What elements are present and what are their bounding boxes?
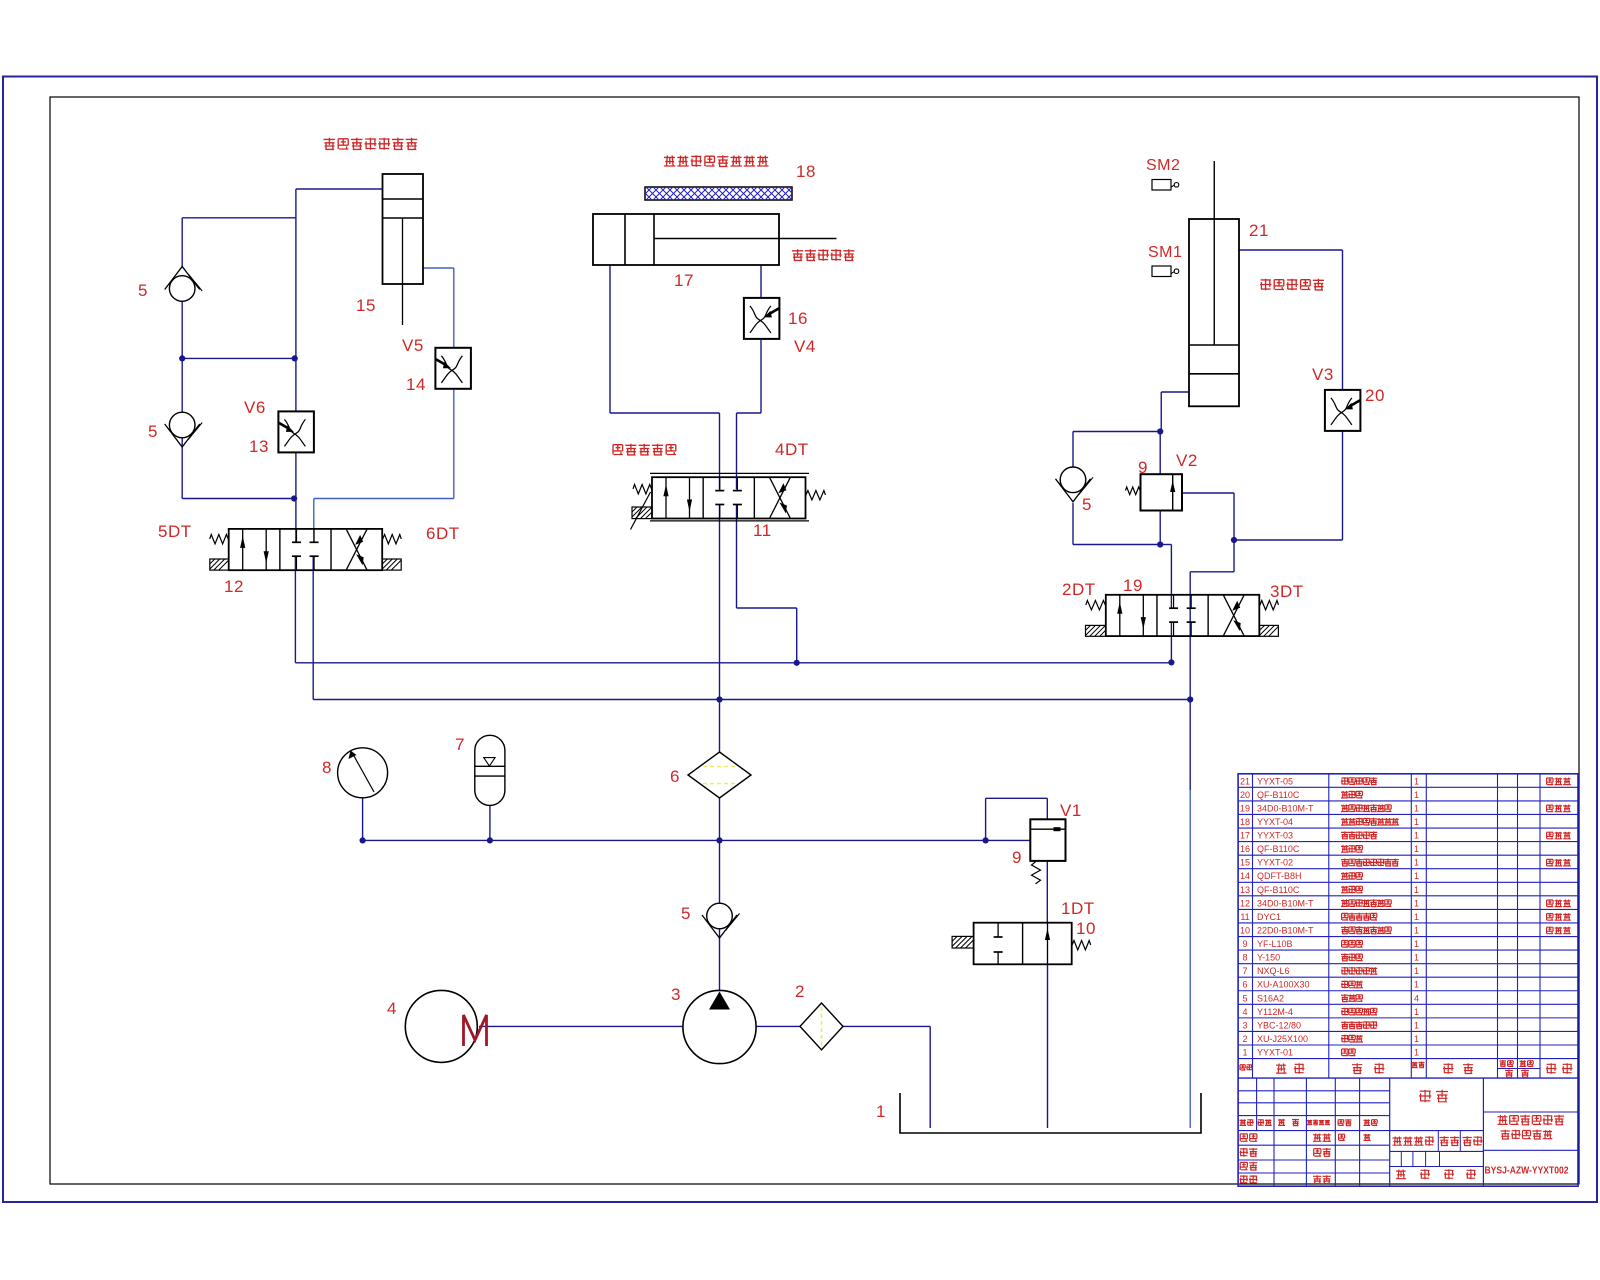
svg-text:18: 18 bbox=[1240, 817, 1250, 827]
svg-text:20: 20 bbox=[1365, 386, 1385, 405]
svg-text:5: 5 bbox=[1082, 495, 1092, 514]
svg-text:8: 8 bbox=[322, 758, 332, 777]
svg-text:V3: V3 bbox=[1312, 365, 1334, 384]
svg-text:19: 19 bbox=[1240, 803, 1250, 813]
svg-text:YBC-12/80: YBC-12/80 bbox=[1257, 1020, 1301, 1030]
svg-text:14: 14 bbox=[1240, 871, 1250, 881]
svg-text:1: 1 bbox=[1414, 912, 1419, 922]
svg-text:10: 10 bbox=[1076, 919, 1096, 938]
svg-text:15: 15 bbox=[356, 296, 376, 315]
svg-text:XU-A100X30: XU-A100X30 bbox=[1257, 980, 1310, 990]
svg-text:1: 1 bbox=[1414, 858, 1419, 868]
svg-text:6: 6 bbox=[1242, 980, 1247, 990]
svg-text:5: 5 bbox=[681, 904, 691, 923]
svg-text:1: 1 bbox=[1414, 1048, 1419, 1058]
svg-text:1: 1 bbox=[1414, 803, 1419, 813]
svg-text:5: 5 bbox=[148, 422, 158, 441]
svg-text:1: 1 bbox=[1242, 1048, 1247, 1058]
svg-text:QF-B110C: QF-B110C bbox=[1257, 885, 1300, 895]
svg-text:1: 1 bbox=[1414, 817, 1419, 827]
svg-text:1DT: 1DT bbox=[1061, 899, 1095, 918]
svg-text:4: 4 bbox=[387, 999, 397, 1018]
svg-text:4: 4 bbox=[1242, 1007, 1247, 1017]
svg-text:YYXT-02: YYXT-02 bbox=[1257, 858, 1293, 868]
svg-text:17: 17 bbox=[1240, 831, 1250, 841]
svg-text:17: 17 bbox=[674, 271, 694, 290]
svg-text:S16A2: S16A2 bbox=[1257, 993, 1284, 1003]
svg-text:YYXT-03: YYXT-03 bbox=[1257, 831, 1293, 841]
svg-text:9: 9 bbox=[1138, 458, 1148, 477]
svg-text:8: 8 bbox=[1242, 953, 1247, 963]
svg-text:3: 3 bbox=[671, 985, 681, 1004]
svg-text:QF-B110C: QF-B110C bbox=[1257, 790, 1300, 800]
svg-text:1: 1 bbox=[1414, 953, 1419, 963]
svg-text:1: 1 bbox=[1414, 1007, 1419, 1017]
svg-text:YYXT-05: YYXT-05 bbox=[1257, 776, 1293, 786]
svg-text:V4: V4 bbox=[794, 337, 816, 356]
svg-text:V6: V6 bbox=[244, 398, 266, 417]
svg-text:11: 11 bbox=[1240, 912, 1249, 922]
svg-text:QF-B110C: QF-B110C bbox=[1257, 844, 1300, 854]
svg-text:1: 1 bbox=[1414, 980, 1419, 990]
svg-text:15: 15 bbox=[1240, 858, 1250, 868]
svg-text:DYC1: DYC1 bbox=[1257, 912, 1281, 922]
svg-text:7: 7 bbox=[455, 735, 465, 754]
svg-text:V5: V5 bbox=[402, 336, 424, 355]
svg-text:QDFT-B8H: QDFT-B8H bbox=[1257, 871, 1302, 881]
svg-text:6: 6 bbox=[670, 767, 680, 786]
svg-text:7: 7 bbox=[1242, 966, 1247, 976]
svg-text:12: 12 bbox=[224, 577, 244, 596]
svg-text:Y-150: Y-150 bbox=[1257, 953, 1280, 963]
svg-text:14: 14 bbox=[406, 375, 426, 394]
svg-text:16: 16 bbox=[1240, 844, 1250, 854]
svg-text:34D0-B10M-T: 34D0-B10M-T bbox=[1257, 898, 1314, 908]
svg-text:22D0-B10M-T: 22D0-B10M-T bbox=[1257, 925, 1314, 935]
svg-text:5: 5 bbox=[138, 281, 148, 300]
svg-text:2: 2 bbox=[795, 982, 805, 1001]
svg-text:3DT: 3DT bbox=[1270, 582, 1304, 601]
svg-text:YYXT-04: YYXT-04 bbox=[1257, 817, 1293, 827]
svg-text:1: 1 bbox=[1414, 898, 1419, 908]
svg-text:10: 10 bbox=[1240, 925, 1250, 935]
svg-text:6DT: 6DT bbox=[426, 524, 460, 543]
svg-text:1: 1 bbox=[1414, 831, 1419, 841]
svg-text:2: 2 bbox=[1242, 1034, 1247, 1044]
svg-text:3: 3 bbox=[1242, 1020, 1247, 1030]
svg-text:1: 1 bbox=[876, 1102, 886, 1121]
svg-text:1: 1 bbox=[1414, 939, 1419, 949]
svg-text:13: 13 bbox=[249, 437, 269, 456]
svg-text:11: 11 bbox=[753, 521, 772, 540]
svg-text:9: 9 bbox=[1012, 848, 1022, 867]
svg-text:XU-J25X100: XU-J25X100 bbox=[1257, 1034, 1308, 1044]
svg-text:18: 18 bbox=[796, 162, 816, 181]
svg-text:1: 1 bbox=[1414, 790, 1419, 800]
svg-text:1: 1 bbox=[1414, 1020, 1419, 1030]
svg-text:1: 1 bbox=[1414, 1034, 1419, 1044]
svg-text:1: 1 bbox=[1414, 925, 1419, 935]
svg-text:5: 5 bbox=[1242, 993, 1247, 1003]
svg-text:20: 20 bbox=[1240, 790, 1250, 800]
svg-text:4: 4 bbox=[1414, 993, 1419, 1003]
svg-text:BYSJ-AZW-YYXT002: BYSJ-AZW-YYXT002 bbox=[1485, 1165, 1569, 1177]
svg-text:SM1: SM1 bbox=[1148, 244, 1182, 261]
svg-text:5DT: 5DT bbox=[158, 522, 192, 541]
svg-text:21: 21 bbox=[1249, 221, 1269, 240]
svg-text:34D0-B10M-T: 34D0-B10M-T bbox=[1257, 803, 1314, 813]
svg-text:16: 16 bbox=[788, 309, 808, 328]
svg-text:1: 1 bbox=[1414, 776, 1419, 786]
svg-text:1: 1 bbox=[1414, 871, 1419, 881]
svg-text:V2: V2 bbox=[1176, 451, 1198, 470]
svg-text:V1: V1 bbox=[1060, 801, 1082, 820]
svg-text:2DT: 2DT bbox=[1062, 580, 1096, 599]
svg-text:NXQ-L6: NXQ-L6 bbox=[1257, 966, 1290, 976]
svg-text:19: 19 bbox=[1123, 576, 1143, 595]
svg-text:Y112M-4: Y112M-4 bbox=[1257, 1007, 1293, 1017]
svg-text:21: 21 bbox=[1240, 776, 1250, 786]
svg-text:SM2: SM2 bbox=[1146, 157, 1180, 174]
svg-text:4DT: 4DT bbox=[775, 440, 809, 459]
svg-text:13: 13 bbox=[1240, 885, 1250, 895]
svg-text:1: 1 bbox=[1414, 966, 1419, 976]
svg-text:12: 12 bbox=[1240, 898, 1250, 908]
svg-text:YF-L10B: YF-L10B bbox=[1257, 939, 1293, 949]
svg-text:9: 9 bbox=[1242, 939, 1247, 949]
svg-text:1: 1 bbox=[1414, 844, 1419, 854]
svg-text:1: 1 bbox=[1414, 885, 1419, 895]
svg-text:YYXT-01: YYXT-01 bbox=[1257, 1048, 1293, 1058]
